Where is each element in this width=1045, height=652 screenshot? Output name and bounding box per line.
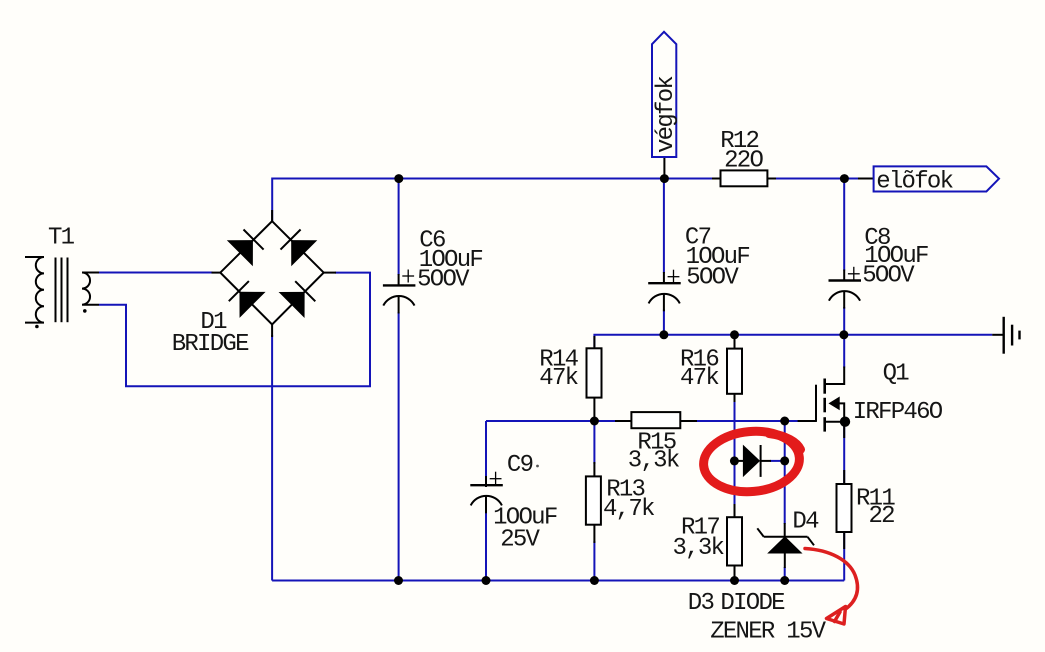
bridge diode bottom-right — [280, 279, 318, 317]
wire C9 top drop — [485, 421, 487, 477]
wire top bus — [272, 179, 860, 222]
svg-text:D3: D3 — [688, 590, 714, 617]
resistor R15 — [615, 412, 697, 428]
wire R13 bottom — [593, 541, 595, 581]
wire bottom bus — [272, 580, 844, 582]
wire C7 bottom — [663, 310, 665, 335]
zener D4 — [757, 523, 814, 568]
junction bottom bus C9 — [482, 576, 491, 585]
junction bottom bus R13 — [590, 576, 599, 585]
ground — [992, 317, 1019, 354]
junction top bus elofok/C8 — [840, 174, 849, 183]
wire R13 top — [593, 421, 595, 464]
svg-text:3,3k: 3,3k — [628, 448, 680, 475]
svg-text:D4: D4 — [792, 509, 819, 536]
svg-text:DIODE: DIODE — [720, 590, 785, 617]
bridge diode top-left — [228, 227, 266, 265]
svg-text:5OOV: 5OOV — [686, 265, 739, 292]
wire secondary top to bridge left — [99, 272, 213, 274]
wire gate bus — [486, 420, 816, 422]
svg-text:47k: 47k — [539, 365, 578, 392]
wire R17 bottom — [734, 563, 736, 581]
bridge diode bottom-left — [227, 279, 265, 317]
junction node A D3 anode — [730, 456, 739, 465]
wire C9 bottom — [485, 512, 487, 581]
junction bottom bus R17 — [730, 576, 739, 585]
resistor R17 — [727, 504, 742, 579]
wire R11 bottom — [843, 531, 845, 581]
wire bridge bottom drop — [271, 335, 273, 581]
svg-text:47k: 47k — [680, 365, 719, 392]
svg-text:C9: C9 — [507, 452, 533, 479]
wire D4 bottom — [784, 567, 786, 581]
svg-text:végfok: végfok — [653, 76, 680, 153]
svg-text:22: 22 — [869, 503, 895, 530]
flag vegfok — [652, 32, 680, 179]
resistor R13 — [586, 462, 601, 543]
wire C8 drop from top bus — [843, 179, 845, 271]
junction top bus vegfok/C7 — [660, 174, 669, 183]
junction mid bus C8 — [839, 330, 848, 339]
wire C6 bottom — [398, 312, 400, 581]
svg-text:Q1: Q1 — [883, 360, 910, 387]
junction mid bus R16 — [730, 330, 739, 339]
resistor R11 — [837, 470, 852, 549]
junction node B D3 cathode — [780, 456, 789, 465]
bridge D1 — [212, 210, 337, 337]
bridge diode top-right — [278, 227, 316, 265]
wire node A to R17 — [734, 461, 736, 506]
svg-text:4,7k: 4,7k — [603, 496, 655, 523]
svg-text:ZENER 15V: ZENER 15V — [710, 619, 826, 646]
mosfet Q1 — [798, 367, 851, 439]
resistor R16 — [727, 336, 742, 402]
wire bridge right loop to secondary bottom — [99, 273, 370, 387]
junction mid bus C7 — [659, 330, 668, 339]
junction bottom bus D4 — [780, 576, 789, 585]
wire Q1 drain from mid bus — [843, 335, 845, 368]
wire D3 cathode to node B — [770, 460, 785, 462]
svg-text:IRFP46O: IRFP46O — [853, 399, 943, 426]
diode D3 — [737, 445, 771, 477]
junction gate bus R14/R13/R15 — [590, 417, 599, 426]
wire mid bus to ground — [594, 335, 992, 347]
capacitor C6 — [383, 270, 416, 314]
capacitor C9 — [470, 472, 503, 514]
capacitor C8 — [829, 267, 862, 309]
svg-text:T1: T1 — [48, 224, 75, 251]
resistor R14 — [587, 336, 602, 420]
svg-text:5OOV: 5OOV — [862, 262, 915, 289]
wire C7 drop from top bus — [663, 179, 665, 274]
svg-text:BRIDGE: BRIDGE — [172, 331, 249, 358]
wire Q1 source down to R11 — [843, 422, 845, 485]
transformer T1 — [25, 257, 99, 328]
junction bottom bus C6 — [394, 576, 403, 585]
wire R16 bottom to node A — [734, 400, 736, 461]
red circle annotation around D3 — [701, 427, 802, 495]
svg-text:5OOV: 5OOV — [417, 266, 470, 293]
wire C8 bottom — [843, 307, 845, 335]
svg-text:elõfok: elõfok — [876, 168, 953, 195]
junction gate bus node B — [780, 417, 789, 426]
junction top bus C6 — [394, 174, 403, 183]
red arrow annotation — [805, 549, 858, 625]
svg-text:22O: 22O — [724, 148, 763, 175]
svg-text:3,3k: 3,3k — [673, 535, 725, 562]
capacitor C7 — [648, 270, 681, 312]
wire C6 drop from top bus — [398, 179, 400, 276]
resistor R12 — [712, 170, 776, 186]
flag elofok — [858, 166, 999, 195]
svg-text:25V: 25V — [500, 527, 540, 554]
wire node B branch gate bus to D4 — [784, 421, 786, 524]
